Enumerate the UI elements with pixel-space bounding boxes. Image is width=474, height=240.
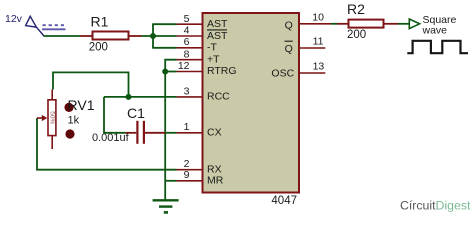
junction dot node pins 5-4-6 — [150, 33, 156, 39]
svg-text:AST: AST — [207, 18, 228, 30]
svg-text:OSC: OSC — [271, 68, 294, 80]
svg-text:200: 200 — [347, 29, 366, 41]
wire RCC pin 3 — [104, 96, 177, 98]
wire 12v to R1 — [44, 35, 81, 37]
wire R2 to output terminal — [385, 23, 399, 25]
wire to pin 6 — [152, 47, 176, 49]
RV1 adjust dot upper — [64, 103, 73, 112]
wire ground rail vertical — [164, 72, 166, 200]
pin 11 Q-bar — [285, 36, 326, 55]
wire RV1 top to RCC — [53, 72, 129, 97]
output terminal arrow — [409, 19, 419, 29]
svg-text:+T: +T — [207, 54, 220, 66]
pin 3 RCC — [177, 85, 231, 102]
wire pin 12 — [165, 71, 176, 73]
svg-text:wave: wave — [422, 25, 448, 37]
capacitor C1 — [126, 121, 166, 144]
svg-text:RCC: RCC — [207, 91, 230, 103]
svg-text:CX: CX — [207, 127, 222, 139]
svg-text:200: 200 — [89, 42, 108, 54]
wire pin 9 MR to ground rail — [165, 180, 177, 182]
svg-text:4: 4 — [184, 25, 190, 37]
pin 10 Q — [285, 12, 331, 32]
svg-text:10: 10 — [312, 12, 324, 24]
wire branch vertical pins 5-4-6 — [152, 24, 154, 48]
pin 2 RX — [177, 158, 222, 175]
svg-text:1k: 1k — [68, 115, 80, 127]
svg-text:12: 12 — [178, 60, 190, 72]
pin 5 AST — [177, 13, 229, 30]
svg-text:Q: Q — [285, 19, 293, 31]
svg-text:RTRG: RTRG — [207, 65, 237, 77]
svg-text:4047: 4047 — [271, 195, 297, 207]
svg-text:11: 11 — [313, 36, 324, 48]
svg-text:3: 3 — [184, 85, 190, 97]
pin 6 -T — [177, 36, 218, 53]
svg-text:-T: -T — [207, 42, 217, 54]
wire pin 8 to ground rail — [165, 60, 176, 72]
junction dot node RCC — [126, 94, 132, 100]
op IC U1 4047 body — [203, 13, 300, 193]
svg-text:13: 13 — [313, 61, 325, 73]
svg-text:50%: 50% — [48, 111, 55, 124]
svg-text:9: 9 — [184, 169, 190, 181]
potentiometer RV1 — [37, 90, 56, 150]
svg-text:C1: C1 — [127, 105, 145, 121]
pin 12 RTRG — [177, 60, 237, 77]
wire C1 right to pin 1 — [165, 132, 177, 134]
pin 8 +T — [177, 48, 221, 65]
resistor R2 — [349, 20, 384, 28]
svg-text:6: 6 — [184, 36, 190, 48]
svg-text:RV1: RV1 — [68, 97, 95, 113]
svg-text:CírcuitDigest: CírcuitDigest — [400, 199, 471, 213]
pin 4 AST-bar — [177, 25, 229, 43]
svg-text:MR: MR — [207, 175, 224, 187]
svg-text:0.001uf: 0.001uf — [92, 132, 130, 144]
RV1 adjust dot lower — [65, 129, 74, 138]
wire pin 10 to R2 — [331, 23, 337, 25]
ground — [153, 200, 179, 212]
annotation square wave glyph — [407, 41, 468, 53]
svg-text:Q: Q — [285, 43, 293, 55]
svg-text:R1: R1 — [91, 14, 109, 30]
wire R1 to pin 4 — [129, 35, 142, 37]
svg-text:AST: AST — [207, 30, 228, 42]
resistor R1 — [93, 32, 129, 40]
pin 9 MR — [177, 169, 224, 186]
wire to pin 5 — [152, 23, 176, 25]
pin 1 CX — [177, 121, 222, 138]
svg-text:8: 8 — [184, 48, 190, 60]
svg-text:1: 1 — [184, 121, 190, 133]
svg-text:12v: 12v — [5, 13, 23, 25]
svg-text:R2: R2 — [347, 1, 365, 17]
wire RV1 wiper to pin 2 RX — [37, 118, 177, 170]
svg-text:5: 5 — [184, 13, 190, 25]
pin 13 OSC — [271, 61, 325, 80]
wire RCC to C1 left — [104, 97, 126, 133]
junction dot node pins 8-12 — [162, 69, 168, 75]
terminal 12v — [5, 13, 66, 36]
